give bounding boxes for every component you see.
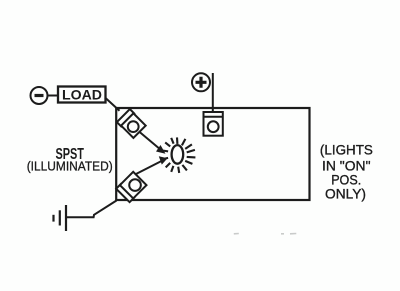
wire from plus down to terminal block: [212, 73, 214, 113]
minus sign: [35, 94, 44, 97]
wire from LOAD to terminal 1: [105, 98, 120, 111]
load box L1: [58, 87, 106, 103]
terminal block contact circle: [208, 121, 219, 132]
arrowhead on wire to lamp (from T1): [156, 145, 166, 154]
wire from minus to LOAD: [48, 95, 59, 97]
terminal block inner crimp line: [204, 116, 223, 118]
plus sign: [196, 77, 207, 88]
svg-text:LOAD: LOAD: [62, 87, 102, 103]
lamp DS1: [161, 137, 195, 173]
svg-text:(LIGHTS: (LIGHTS: [320, 142, 373, 158]
scan smudges under box: [234, 233, 296, 235]
arrowhead on wire to lamp (from T2): [159, 156, 168, 164]
svg-text:ONLY): ONLY): [325, 186, 366, 202]
svg-text:(ILLUMINATED): (ILLUMINATED): [27, 158, 113, 173]
ground symbol: [54, 205, 67, 231]
battery negative terminal (minus circle): [31, 87, 48, 104]
wire arrow from T2 to lamp: [136, 161, 163, 175]
battery positive terminal (plus circle): [192, 73, 210, 91]
terminal T1 (top-left spade lug): [117, 109, 146, 138]
wire arrow from T1 to lamp: [139, 132, 161, 151]
switch body rectangle: [116, 108, 309, 200]
terminal T2 (bottom-left spade lug): [116, 172, 146, 202]
ground wire diagonal: [66, 201, 117, 218]
terminal block T3 (square lug): [204, 112, 223, 136]
